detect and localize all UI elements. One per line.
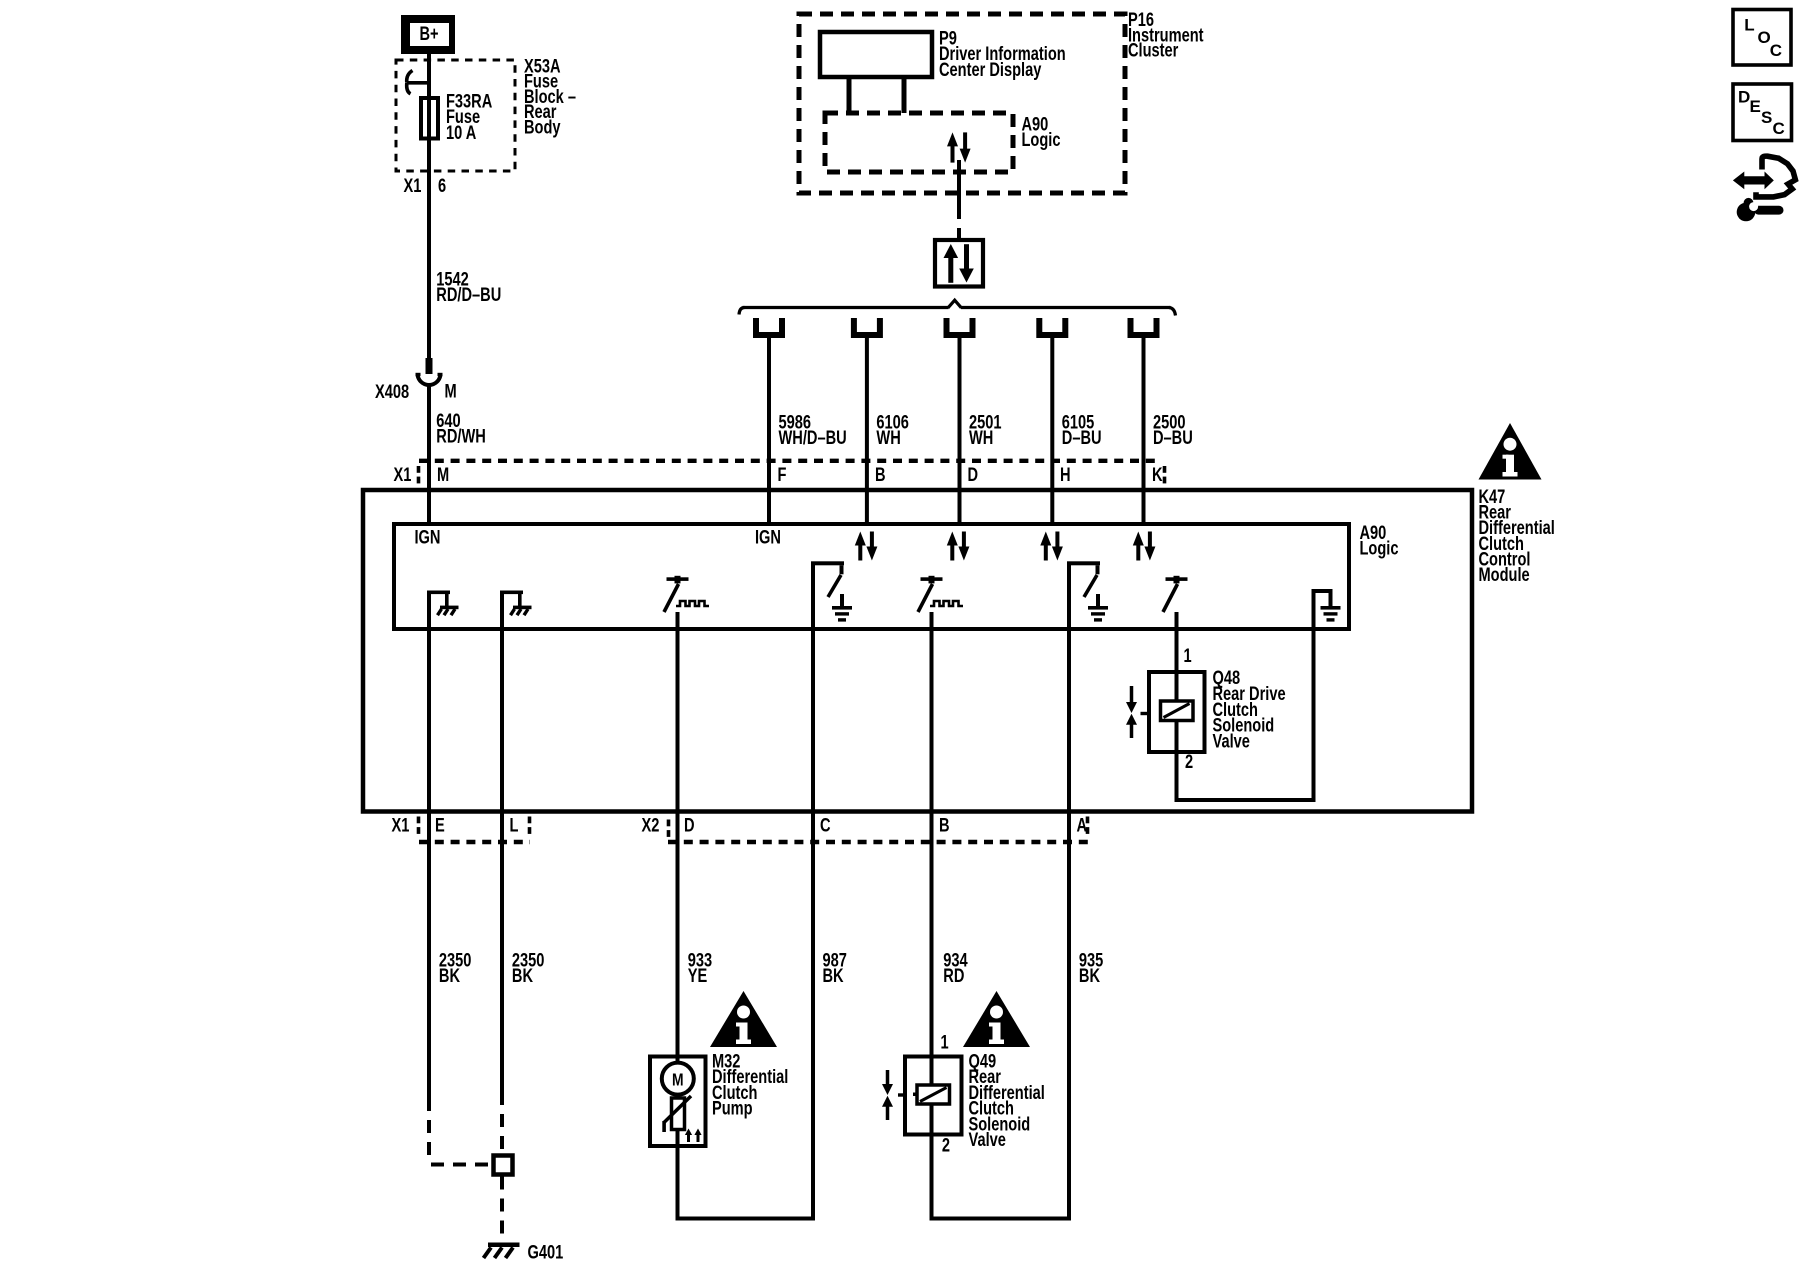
wire 933 YE pump feed <box>676 629 680 1058</box>
svg-text:X2: X2 <box>642 815 660 836</box>
driver PWM switch pump control <box>664 576 709 629</box>
svg-text:M: M <box>445 381 457 402</box>
svg-text:Center Display: Center Display <box>939 59 1042 80</box>
connector X1 tick right top <box>1163 466 1167 473</box>
svg-text:6: 6 <box>438 175 446 196</box>
connector tick after A <box>1086 817 1090 824</box>
svg-text:M: M <box>672 1070 684 1090</box>
svg-text:10 A: 10 A <box>446 122 476 143</box>
serial data arrows pin K <box>1133 532 1156 561</box>
svg-text:D: D <box>684 815 695 836</box>
svg-text:X408: X408 <box>375 381 409 402</box>
svg-text:1: 1 <box>941 1032 949 1053</box>
svg-text:WH/D–BU: WH/D–BU <box>779 427 847 448</box>
svg-text:L: L <box>1744 16 1754 35</box>
svg-text:E: E <box>435 815 445 836</box>
svg-text:B: B <box>875 464 886 485</box>
wire P9 leg right <box>902 77 907 113</box>
svg-text:C: C <box>1773 119 1785 138</box>
svg-text:A: A <box>1077 815 1088 836</box>
fuse clip symbol <box>407 71 413 83</box>
valve actuator arrows Q48 <box>1130 686 1134 704</box>
wire module pin stub <box>1142 490 1146 524</box>
wire 640 X408 to module <box>427 385 431 492</box>
svg-text:Body: Body <box>524 117 561 138</box>
driver chassis ground output <box>500 592 504 629</box>
connector X2 tick <box>667 820 671 827</box>
wire 934 RD solenoid feed <box>930 629 934 1058</box>
serial data arrows in cluster A90 <box>947 132 971 162</box>
svg-text:RD: RD <box>943 965 964 986</box>
motor M32 differential clutch pump <box>650 1057 706 1147</box>
connector terminal above wire 2500 <box>1128 318 1160 338</box>
serial data bus symbol <box>935 240 983 287</box>
warning triangle Q49 <box>963 991 1030 1047</box>
svg-text:RD/WH: RD/WH <box>436 426 486 447</box>
icon data link communication <box>1733 172 1774 190</box>
svg-text:IGN: IGN <box>415 527 441 548</box>
module K47 outer box <box>363 490 1472 812</box>
connector terminal above wire 2501 <box>944 318 976 338</box>
driver switch to ground pin A <box>1067 561 1108 629</box>
svg-text:WH: WH <box>876 427 900 448</box>
svg-text:Logic: Logic <box>1360 538 1399 559</box>
display P9 box <box>820 32 932 77</box>
wire module pin stub <box>865 490 869 524</box>
wire 1542 B+ through fuse to X408 <box>427 52 431 361</box>
svg-text:B+: B+ <box>420 23 439 44</box>
wire module pin stub <box>767 490 771 524</box>
fuse F33RA 10A element <box>421 98 438 139</box>
wire solenoid bottom loop <box>930 1134 934 1219</box>
wire Q48 pin 2 return loop <box>1175 752 1179 800</box>
svg-text:L: L <box>510 815 519 836</box>
serial data arrows pin H <box>1040 532 1063 561</box>
valve actuator arrows Q49 <box>886 1070 890 1086</box>
inline connector X408 pin M <box>426 358 433 374</box>
svg-text:Valve: Valve <box>969 1129 1006 1150</box>
svg-text:F: F <box>778 464 787 485</box>
wire module pin stub <box>427 490 431 524</box>
svg-text:1: 1 <box>1184 645 1192 666</box>
svg-text:E: E <box>1750 97 1761 116</box>
connector tick after L <box>528 817 532 824</box>
svg-text:M: M <box>437 464 449 485</box>
svg-text:Valve: Valve <box>1213 731 1250 752</box>
wire 987 BK pump return <box>811 629 815 811</box>
driver PWM switch solenoid control <box>918 576 963 629</box>
svg-text:D: D <box>1738 88 1750 107</box>
driver switch Q48 high side <box>1166 577 1188 581</box>
svg-text:D–BU: D–BU <box>1153 427 1193 448</box>
connector X1 tick left bottom <box>417 817 421 824</box>
svg-text:Module: Module <box>1479 564 1530 585</box>
warning triangle M32 <box>710 991 777 1047</box>
svg-text:2: 2 <box>1185 751 1193 772</box>
svg-text:2: 2 <box>942 1135 950 1156</box>
wire splice to ground <box>500 1177 504 1244</box>
wire 6105 D-BU <box>1050 338 1054 492</box>
svg-text:BK: BK <box>823 965 845 986</box>
svg-text:X1: X1 <box>394 464 412 485</box>
logic block A90 dashed box in cluster <box>825 113 1013 172</box>
svg-text:B: B <box>939 815 950 836</box>
solenoid valve Q49 rear differential clutch <box>905 1057 962 1135</box>
wire 2350 BK pin E <box>427 629 431 1098</box>
connector X1 dashed line bottom <box>419 840 530 844</box>
serial data arrows pin D <box>947 532 970 561</box>
wire 5986 WH/D-BU <box>767 338 771 492</box>
wire 935 BK solenoid return <box>1067 629 1071 1221</box>
svg-text:D: D <box>968 464 979 485</box>
solenoid valve Q48 <box>1149 672 1205 752</box>
wire module pin stub <box>1050 490 1054 524</box>
serial data wire cluster to bus symbol <box>957 160 961 207</box>
ground G401 <box>488 1243 520 1248</box>
svg-text:K: K <box>1152 464 1163 485</box>
driver switch to ground pin C <box>811 561 852 629</box>
connector X1 tick left top <box>417 466 421 473</box>
svg-text:Pump: Pump <box>712 1098 753 1119</box>
svg-text:G401: G401 <box>528 1242 564 1263</box>
svg-text:D–BU: D–BU <box>1062 427 1102 448</box>
svg-text:Cluster: Cluster <box>1128 40 1179 61</box>
svg-text:BK: BK <box>439 965 461 986</box>
svg-text:X1: X1 <box>392 815 410 836</box>
serial data arrows pin B <box>855 532 878 561</box>
wire 6106 WH <box>865 338 869 492</box>
connector terminal above wire 5986 <box>753 318 785 338</box>
internal ground return for Q48 <box>1312 591 1316 629</box>
wire P9 leg left <box>847 77 852 113</box>
svg-text:C: C <box>820 815 831 836</box>
wire 2350 BK pin L <box>500 629 504 1092</box>
brace serial bus splits to five pins <box>743 306 949 309</box>
svg-text:X1: X1 <box>404 175 422 196</box>
svg-text:H: H <box>1060 464 1071 485</box>
svg-text:BK: BK <box>1079 965 1101 986</box>
connector terminal above wire 6105 <box>1036 318 1068 338</box>
warning triangle K47 <box>1479 423 1542 480</box>
B+ battery positive terminal <box>401 15 455 54</box>
svg-text:Logic: Logic <box>1022 129 1061 150</box>
connector X1 dashed line top <box>419 459 1159 463</box>
icon DESC box <box>1733 84 1792 141</box>
svg-text:WH: WH <box>969 427 993 448</box>
wire 2500 D-BU <box>1142 338 1146 492</box>
icon LOC box <box>1733 10 1791 66</box>
svg-text:IGN: IGN <box>755 527 781 548</box>
svg-text:BK: BK <box>512 965 534 986</box>
svg-text:C: C <box>1770 41 1782 60</box>
instrument cluster P16 dashed box <box>799 14 1125 193</box>
wire pump bottom loop <box>676 1144 680 1219</box>
connector X2 dashed line bottom <box>668 840 1088 844</box>
fuse block X53A dashed outline <box>396 60 515 171</box>
svg-text:YE: YE <box>688 965 708 986</box>
driver chassis ground output <box>427 592 431 629</box>
splice <box>494 1156 513 1175</box>
svg-text:O: O <box>1758 28 1771 47</box>
svg-text:RD/D–BU: RD/D–BU <box>436 284 501 305</box>
wire A90 to Q48 pin 1 <box>1175 629 1179 672</box>
wire 2501 WH <box>958 338 962 492</box>
connector terminal above wire 6106 <box>851 318 883 338</box>
svg-text:S: S <box>1761 108 1772 127</box>
logic block A90 inner box <box>394 524 1349 629</box>
wire module pin stub <box>958 490 962 524</box>
